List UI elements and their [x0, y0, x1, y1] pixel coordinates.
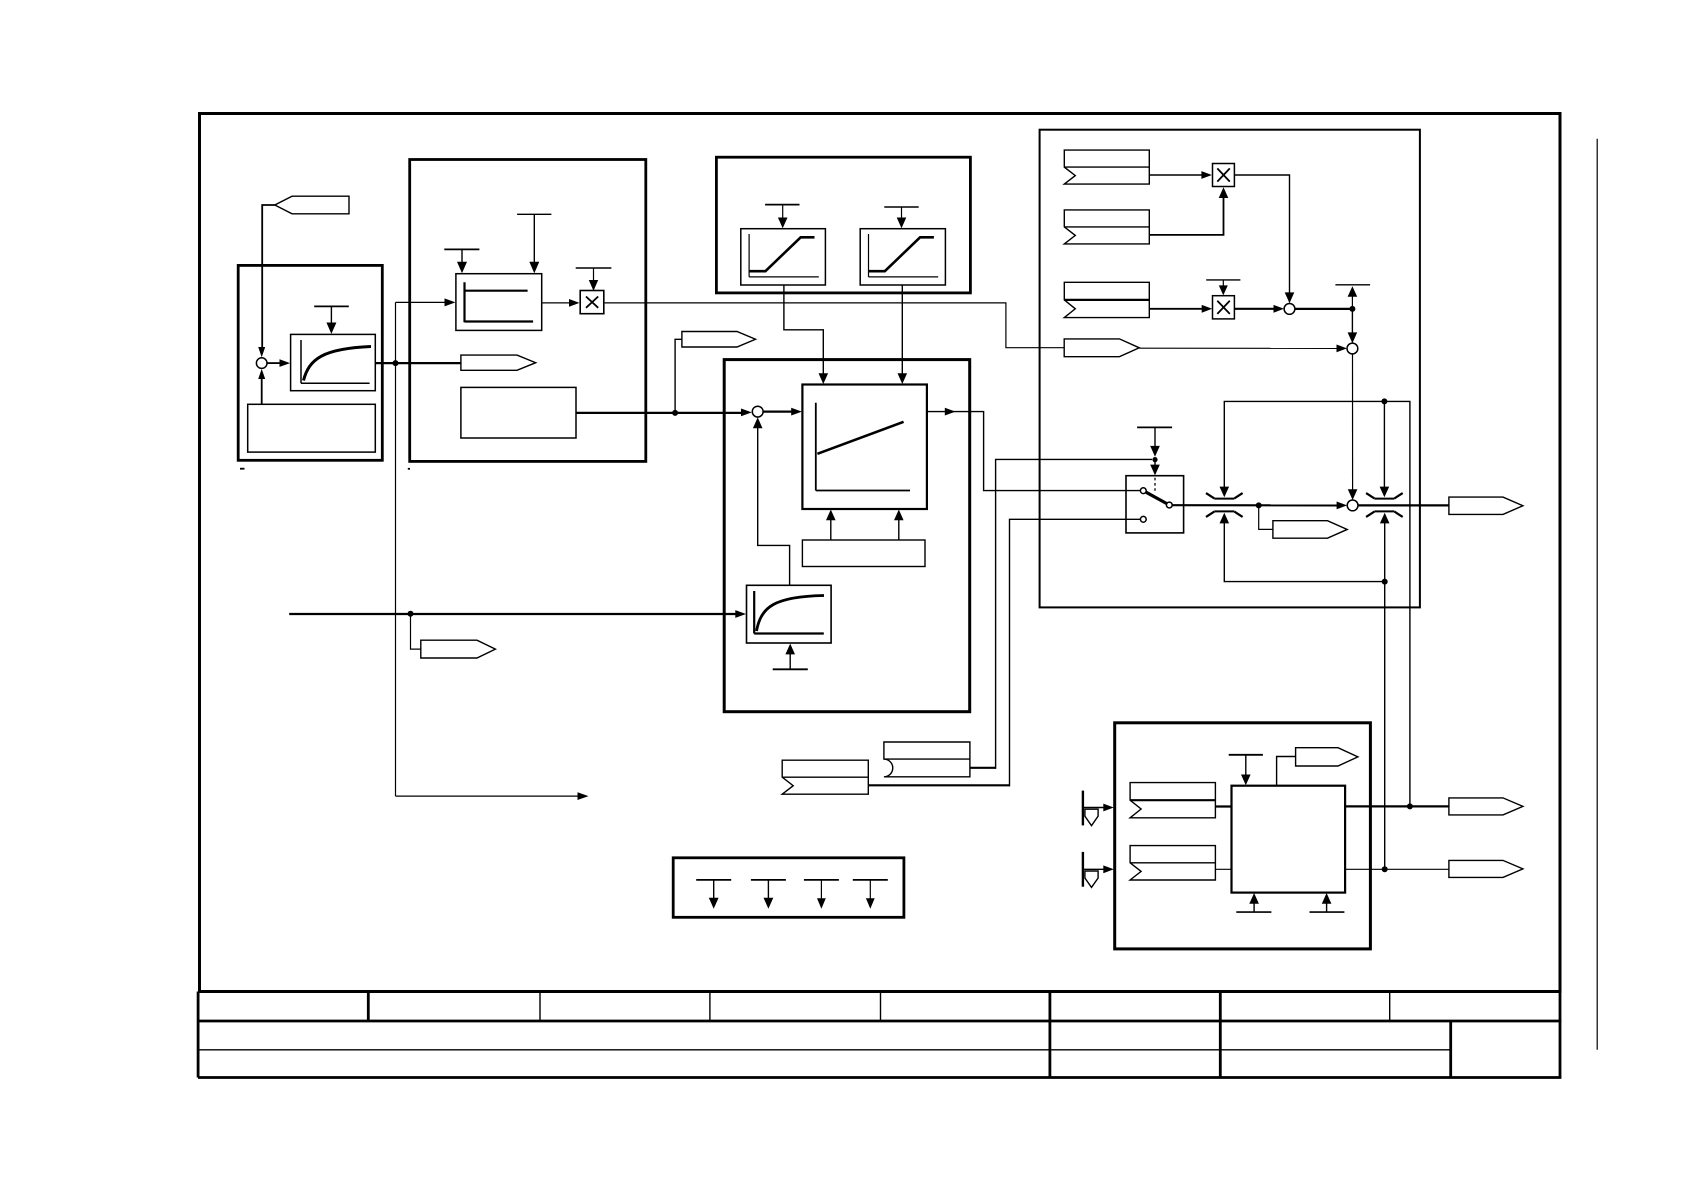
wire deadband to multiplier: [542, 302, 573, 304]
connector flag F6 in B5: [1130, 783, 1215, 818]
junction dot S3 output: [1349, 306, 1355, 312]
footnote dash left: [240, 468, 245, 470]
junction dot on long input wire: [408, 611, 414, 617]
ramp-up limiter box left: [741, 229, 826, 285]
junction dot upper limit: [1381, 398, 1387, 404]
arrowhead lower limit into L1: [1220, 513, 1230, 524]
arrowhead into characteristic left: [791, 408, 802, 416]
main wire S5 to output connector: [1358, 504, 1449, 506]
arrowhead into M2 bottom: [1219, 187, 1229, 198]
wire F5 to switch lower contact: [868, 519, 1140, 786]
output connector pentagon O2: [1449, 798, 1523, 815]
wire to deadband block: [396, 301, 449, 303]
summing point S4: [1347, 343, 1358, 354]
summing point S1: [256, 358, 267, 369]
KP parameter box: [802, 540, 925, 567]
title block column divider 4: [880, 992, 882, 1022]
arrowhead into summing point bottom: [258, 369, 265, 379]
junction dot output 1: [1407, 803, 1413, 809]
connector input top-left (left-pointing): [275, 196, 349, 214]
arrowhead into S2 bottom: [753, 417, 763, 428]
wire F7 to logic box: [1215, 868, 1231, 870]
upper limit feedback wire: [1224, 401, 1410, 806]
switch contact terminal top: [1140, 488, 1146, 494]
legend parameter symbol 4: [853, 880, 888, 909]
junction dot on reference wire: [672, 410, 678, 416]
arrowhead into summing point S2: [741, 409, 752, 417]
footnote dash below B2: [408, 468, 410, 470]
parameter T-bar over right ramp box: [884, 207, 918, 228]
parameter T-bar over multiplier M1: [576, 268, 612, 291]
wire F2 up into M2 bottom: [1149, 194, 1223, 235]
arrowhead into characteristic top right: [898, 373, 908, 384]
wire F3 to multiplier M3: [1149, 308, 1205, 310]
connector flag F4 (arc type): [884, 742, 970, 777]
feedback wire PT1 to summing point S2: [758, 422, 790, 585]
wire right ramp box to characteristic top: [901, 285, 903, 377]
arrowhead into B3 PT1: [735, 610, 746, 618]
output wire 1 from logic box: [1345, 805, 1449, 807]
main wire switch output to summing point S5: [1172, 504, 1340, 506]
arrowhead continuation right: [578, 792, 589, 800]
reference model box in B2: [461, 387, 576, 438]
branch wire up to tap pentagon: [675, 339, 682, 413]
title block column divider 2: [539, 992, 541, 1022]
output connector pentagon O1: [1449, 497, 1523, 514]
title block column divider 6: [1219, 992, 1222, 1078]
arrowhead into M2: [1201, 171, 1212, 179]
PT1 smoothing box in B3: [747, 585, 832, 643]
tap pentagon in B5: [1296, 748, 1358, 766]
branch upper limit into L2: [1383, 401, 1385, 489]
parameter T-bar below logic box left: [1236, 893, 1271, 912]
tap pentagon before B3: [682, 332, 756, 348]
switch lever: [1146, 492, 1167, 503]
dashed control line in switch: [1154, 478, 1156, 492]
output wire 2 from logic box: [1345, 868, 1449, 870]
arrowhead lower limit into L2: [1380, 513, 1390, 524]
limiter symbol L2: [1366, 493, 1403, 517]
branch lower limit into L2: [1384, 521, 1386, 582]
lower limit feedback wire: [1224, 521, 1384, 870]
legend parameter symbol 2: [751, 880, 786, 909]
connector tap pentagon in B2: [461, 355, 536, 370]
wire junction down to summing point S4: [1351, 309, 1353, 337]
title block column divider 5: [1049, 992, 1052, 1078]
wire from top-left connector down to summing point: [262, 205, 275, 352]
block frame B2 (setpoint conditioning): [410, 160, 646, 462]
arrowhead into multiplier: [569, 299, 580, 307]
characteristic box (gain adaptation): [802, 385, 927, 510]
connector flag F3: [1064, 282, 1149, 317]
wire S4 down to summing point S5: [1352, 354, 1354, 494]
legend parameter symbol 3: [804, 880, 839, 909]
block frame B5 (output interface): [1115, 723, 1371, 949]
title block row line thin: [198, 1049, 1451, 1051]
switch contact terminal bottom: [1140, 516, 1146, 522]
parameter T-bar over switch: [1137, 427, 1172, 456]
arrowhead into S4 top: [1348, 332, 1358, 343]
title block column divider 8: [1449, 1021, 1452, 1078]
arrowhead mid output: [945, 408, 956, 416]
parameter T-bar below B3 PT1: [773, 644, 808, 670]
summing point S2: [752, 406, 763, 417]
wire S3 to junction: [1295, 308, 1353, 310]
title block column divider 7: [1389, 992, 1391, 1022]
parameter T-bar over deadband left: [444, 249, 479, 273]
parameter T-bar above PT1: [314, 306, 349, 334]
junction dot output 2: [1382, 866, 1388, 872]
parameter T-bar over logic box: [1229, 755, 1263, 786]
PT1 axes: [301, 340, 370, 383]
wire F4 to switch control: [970, 459, 1152, 769]
parameter T-bar over deadband right: [517, 214, 551, 273]
wire S2 to characteristic: [763, 411, 795, 413]
logic box in B5: [1232, 786, 1346, 893]
connector flag F5 (chevron): [782, 760, 868, 794]
wire F1 to multiplier M2: [1149, 174, 1205, 176]
wire M3 to summing point S3: [1234, 308, 1277, 310]
junction dot lower limit: [1382, 579, 1388, 585]
wire reference model to summing point S2: [576, 412, 745, 414]
continuation arrow wire bottom-left: [396, 795, 581, 797]
wire down to switch top contact: [984, 483, 1141, 491]
arrowhead into summing point top: [258, 347, 265, 357]
arrowhead into M3: [1202, 305, 1213, 313]
control junction dot above switch: [1152, 457, 1157, 462]
multiplier M1 box: [580, 291, 604, 314]
legend box: [673, 858, 904, 918]
branch to tap pentagon below: [411, 614, 421, 649]
right margin line: [1596, 139, 1598, 1050]
arrowhead into S3 left: [1274, 305, 1285, 313]
lower parameter box in B1: [248, 404, 376, 452]
PT1 exponential curve: [304, 347, 372, 381]
title block row line thick: [198, 1020, 1561, 1023]
binector terminal T2: [1083, 852, 1114, 888]
tap pentagon between limiters: [1273, 521, 1347, 539]
arrowhead into switch top: [1150, 465, 1160, 476]
characteristic output wire with arrow: [927, 412, 984, 483]
parameter T-bar below logic box right: [1310, 893, 1345, 912]
PT1 smoothing element box: [291, 334, 376, 390]
deadband symbol: [465, 282, 534, 322]
block frame ramp container: [716, 157, 970, 293]
vertical distribution wire x395: [395, 302, 397, 796]
multiplier M2 box: [1213, 164, 1235, 187]
summing point S5: [1347, 500, 1358, 511]
branch to tap pentagon between limiters: [1259, 505, 1273, 529]
title block outer: [198, 992, 1561, 1078]
long input wire into B3 PT1: [289, 613, 739, 615]
wire PT1 output to droop pentagon: [375, 362, 461, 364]
connector flag F7 in B5: [1130, 846, 1215, 880]
parameter T-bar over M3: [1206, 280, 1240, 296]
arrowhead into deadband block: [445, 298, 456, 306]
tap wire from logic box top: [1277, 757, 1296, 786]
KP box arrows into characteristic bottom: [826, 510, 904, 541]
arrowhead into S3 top: [1285, 292, 1295, 303]
arrowhead into S5 left: [1337, 502, 1348, 510]
junction dot after lower limiter: [1256, 502, 1262, 508]
title block column divider 3: [709, 992, 711, 1022]
ramp-up limiter box right: [860, 229, 945, 285]
wire pentagon to summing point S4: [1139, 347, 1340, 349]
title block column divider 1: [367, 992, 370, 1022]
wire S1 to PT1 element: [267, 362, 283, 364]
wire F6 to logic box: [1215, 805, 1231, 807]
wire left ramp box to characteristic top: [784, 285, 823, 377]
block frame B1 (speed actual value conditioning): [238, 265, 382, 460]
multiplier M3 box: [1213, 296, 1235, 319]
drawing frame border: [200, 114, 1561, 992]
output connector pentagon O3: [1449, 860, 1523, 877]
arrowhead upper limit into L2: [1380, 487, 1390, 498]
display parameter T-bar above junction: [1335, 285, 1370, 309]
arrowhead into PT1 element: [280, 359, 291, 367]
arrowhead into S4 left: [1337, 345, 1348, 353]
switch selector box: [1126, 476, 1184, 533]
legend parameter symbol 1: [696, 880, 731, 909]
arrowhead upper limit into L1: [1220, 487, 1230, 498]
connector flag F1: [1064, 150, 1149, 184]
arrowhead into S5 top: [1348, 489, 1358, 500]
input pentagon into B4: [1064, 339, 1139, 357]
switch output terminal: [1166, 502, 1172, 508]
block frame B4 (torque setpoint limiting): [1040, 130, 1420, 608]
binector terminal T1: [1083, 791, 1114, 826]
wire multiplier M1 output to B4 input pentagon: [605, 303, 1064, 348]
block frame B3 (controller adaptation): [724, 360, 970, 712]
wire M2 output down to summing point S3: [1234, 175, 1289, 297]
limiter symbol L1: [1206, 493, 1243, 517]
wire lower box to summing point S1: [261, 373, 263, 405]
arrowhead into characteristic top left: [819, 373, 829, 384]
parameter T-bar over left ramp box: [765, 205, 799, 229]
tap pentagon lower left: [421, 640, 496, 658]
wire control junction into switch: [1154, 460, 1156, 469]
summing point S3: [1284, 304, 1295, 315]
deadband block: [456, 274, 542, 331]
connector flag F2: [1064, 210, 1149, 244]
junction dot PT1 output: [393, 360, 399, 366]
